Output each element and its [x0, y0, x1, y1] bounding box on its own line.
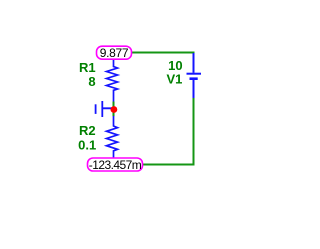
svg-text:-123.457m: -123.457m: [89, 158, 142, 172]
resistor R1: [107, 59, 118, 102]
wire top node horizontal: [130, 52, 195, 54]
wire stub below junction: [113, 112, 115, 116]
svg-text:9.877: 9.877: [100, 46, 129, 60]
svg-text:R1: R1: [79, 60, 96, 75]
current probe I1: [96, 101, 113, 117]
node voltage label 9.877: [97, 46, 132, 60]
node voltage label -123.457m: [88, 158, 143, 172]
svg-text:R2: R2: [79, 123, 96, 138]
junction dot: [111, 106, 118, 113]
wire right vertical and bottom horizontal: [141, 98, 194, 165]
svg-text:8: 8: [88, 74, 95, 89]
battery V1: [187, 53, 202, 98]
resistor R2: [107, 116, 118, 158]
svg-text:V1: V1: [166, 72, 182, 87]
svg-text:0.1: 0.1: [78, 137, 96, 152]
wire stub above junction: [113, 102, 115, 108]
